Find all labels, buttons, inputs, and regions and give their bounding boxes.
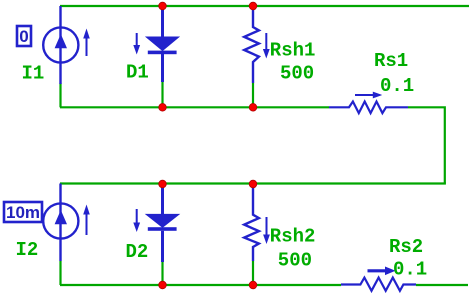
wire I2 bottom stub: [59, 261, 61, 285]
wire bottom rail right: [416, 284, 468, 286]
I1 direction arrow: [83, 29, 90, 57]
svg-text:Rs2: Rs2: [389, 236, 423, 258]
wire D2 bottom stub: [161, 262, 163, 285]
I2 value label box "10m": [4, 202, 42, 222]
wire Rsh1 bottom stub: [252, 83, 254, 107]
svg-text:10m: 10m: [6, 203, 40, 222]
wire Rsh2 bottom stub: [252, 261, 254, 285]
I1 value label box "0": [17, 26, 31, 46]
Rsh1 direction arrow: [263, 33, 270, 59]
junction dot D2 top: [159, 180, 167, 188]
junction dot Rsh2 top: [249, 180, 257, 188]
svg-text:0: 0: [19, 27, 28, 46]
resistor Rsh1: [244, 6, 259, 83]
svg-text:Rsh2: Rsh2: [270, 226, 316, 248]
svg-text:0.1: 0.1: [380, 75, 414, 97]
junction dot Rsh1 top: [249, 2, 257, 10]
junction dot D1 top: [159, 2, 167, 10]
D2 direction arrow: [133, 209, 140, 232]
Rs2 current arrow: [368, 267, 396, 276]
resistor Rs2: [341, 278, 416, 291]
D1 direction arrow: [133, 33, 140, 55]
junction dot D2 bottom: [159, 281, 167, 289]
I2 direction arrow: [83, 205, 90, 236]
svg-text:Rsh1: Rsh1: [270, 40, 316, 62]
junction dot D1 bottom: [159, 104, 167, 112]
wire lower top rail: [60, 182, 446, 184]
current source I2: [43, 184, 78, 262]
wire mid rail right with corner down: [408, 107, 445, 183]
svg-text:I1: I1: [22, 63, 45, 85]
svg-text:500: 500: [278, 250, 312, 272]
wire bottom rail left: [60, 284, 341, 286]
resistor Rsh2: [244, 184, 259, 262]
svg-text:D1: D1: [126, 62, 149, 84]
junction dot Rsh2 bottom: [249, 281, 257, 289]
resistor Rs1: [329, 102, 408, 114]
diode D2: [148, 184, 177, 263]
wire I1 bottom stub: [59, 83, 61, 107]
wire top rail: [60, 5, 469, 7]
current source I1: [43, 6, 78, 84]
svg-text:I2: I2: [16, 239, 39, 261]
diode D1: [148, 6, 177, 82]
Rs1 current arrow: [355, 92, 382, 99]
wire mid rail left: [60, 106, 329, 108]
svg-text:500: 500: [280, 63, 314, 85]
Rsh2 direction arrow: [263, 217, 270, 244]
svg-text:Rs1: Rs1: [374, 50, 408, 72]
svg-text:0.1: 0.1: [393, 259, 427, 281]
svg-text:D2: D2: [126, 241, 149, 263]
junction dot Rsh1 bottom: [249, 104, 257, 112]
wire D1 bottom stub: [161, 82, 163, 107]
